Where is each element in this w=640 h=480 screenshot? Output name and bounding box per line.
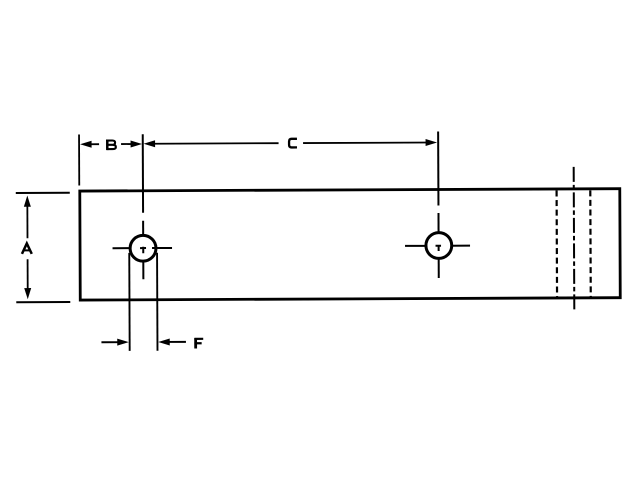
hole 2 circle <box>426 233 452 259</box>
dimension B left arrow <box>80 141 92 148</box>
dimension A arrow down <box>24 288 31 299</box>
part outline <box>80 189 620 300</box>
dimension F left arrow <box>101 341 121 343</box>
label B <box>107 139 116 150</box>
dimension C left arrow <box>144 140 156 147</box>
dimension C line right <box>303 142 430 145</box>
dimension A extension line bottom <box>16 301 70 303</box>
hole 1 vertical centerline <box>142 134 145 279</box>
dimension C right arrow <box>426 139 438 146</box>
label C <box>289 139 297 148</box>
hidden dashed line right <box>589 190 592 296</box>
dimension A extension line top <box>16 192 70 194</box>
dimension F extension line right <box>156 253 158 351</box>
dimension F extension line left <box>128 253 130 351</box>
center line right end <box>573 167 576 310</box>
hidden dashed line left <box>555 190 558 296</box>
dimension B extension line <box>78 135 80 186</box>
hole 1 horizontal centerline <box>113 247 172 249</box>
label F <box>194 338 203 349</box>
hole 1 circle <box>130 235 156 261</box>
dimension A line <box>26 203 28 290</box>
dimension F right arrow <box>158 338 170 345</box>
hole 2 horizontal centerline <box>405 245 470 247</box>
label A <box>22 243 32 253</box>
hole 2 vertical centerline <box>437 131 440 277</box>
dimension B right arrow <box>121 143 135 145</box>
dimension A arrow up <box>24 195 31 206</box>
